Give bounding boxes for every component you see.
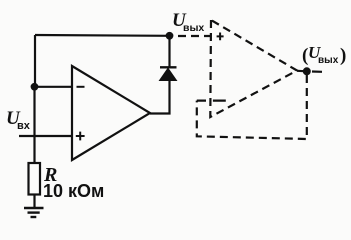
wire dashed from node to dashed op-amp <box>178 35 211 37</box>
wire dashed output apex to node <box>297 70 307 73</box>
svg-text:вых: вых <box>318 55 339 66</box>
node (Uвых) <box>303 67 311 75</box>
wire op-amp output <box>150 81 170 114</box>
op-amp U1 <box>72 66 150 160</box>
label Uвх <box>6 108 31 132</box>
op-amp dashed U2 <box>210 20 297 117</box>
resistor R1 body <box>29 163 41 195</box>
wire resistor to ground <box>33 195 35 209</box>
wire top feedback horizontal <box>35 34 170 37</box>
wire dashed feedback loop <box>197 75 307 139</box>
plus mark op-amp U1 <box>76 132 85 141</box>
node Uвых output <box>166 32 174 40</box>
wire noninverting input Uвх <box>19 135 72 137</box>
diode VD1 <box>160 36 177 81</box>
node inverting input junction <box>31 83 39 91</box>
wire inverting input <box>35 86 73 88</box>
svg-text:вх: вх <box>17 120 31 132</box>
minus input line dashed op-amp <box>197 99 226 101</box>
wire left feedback vertical <box>34 35 36 87</box>
wire dashed stub right of node <box>312 70 322 73</box>
svg-text:вых: вых <box>183 22 204 34</box>
label (Uвых) <box>302 43 346 66</box>
wire down to resistor <box>33 87 35 163</box>
plus mark dashed op-amp <box>217 33 224 41</box>
svg-text:): ) <box>340 45 346 66</box>
svg-text:10 кОм: 10 кОм <box>43 181 104 201</box>
ground <box>24 208 44 217</box>
minus mark op-amp U1 <box>77 86 85 88</box>
label Uвых <box>172 10 204 34</box>
